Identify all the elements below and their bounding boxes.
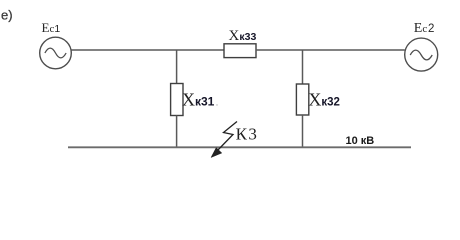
svg-text:К3: К3 — [236, 125, 259, 144]
svg-text:Xк32: Xк32 — [308, 90, 340, 110]
svg-text:Xк33: Xк33 — [229, 28, 257, 44]
svg-text:Eс2: Eс2 — [414, 21, 435, 36]
wire: node B down to reactor Xк32 — [302, 50, 304, 84]
svg-text:е): е) — [1, 8, 13, 23]
wire: reactor Xк33 to node B — [256, 49, 303, 51]
wire: reactor Xк32 to bus — [302, 115, 304, 147]
svg-text:10 кВ: 10 кВ — [346, 135, 375, 147]
wire: reactor Xк31 to bus — [176, 116, 178, 148]
svg-text:Xк31.: Xк31. — [182, 90, 218, 110]
wire: node A to reactor Xк33 — [177, 49, 225, 51]
reactor Xк32 (shunt box) — [296, 84, 308, 115]
wire: node A down to reactor Xк31 — [176, 50, 178, 84]
bus 10 kV — [68, 146, 411, 148]
reactor Xк31 (shunt box) — [171, 84, 183, 116]
svg-text:Eс1: Eс1 — [42, 20, 61, 35]
reactor Xк33 (series box) — [224, 44, 256, 58]
source U-Ec2 (AC generator circle) — [405, 38, 438, 71]
source U-Ec1 (AC generator circle) — [40, 37, 72, 69]
wire: Ec1 to node A — [71, 49, 176, 51]
fault K3 (short-circuit lightning arrow) — [211, 122, 237, 158]
wire: node B to Ec2 — [303, 49, 405, 51]
